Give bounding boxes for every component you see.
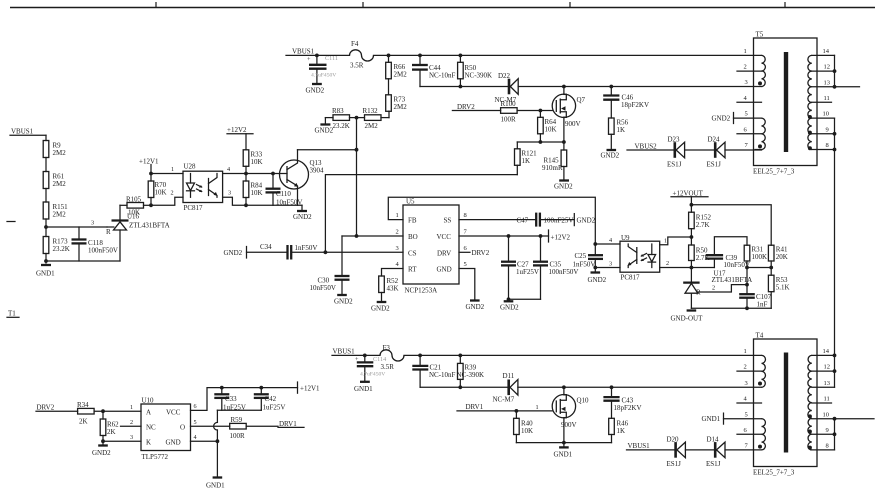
wire VBUS1 to R9 xyxy=(45,135,47,140)
pin T4-5 GND1 port xyxy=(702,411,762,424)
pin T4-6 stub xyxy=(737,427,762,434)
wire T5 pins 14-12-13 tie xyxy=(834,55,836,86)
wire D20 to D14 xyxy=(685,449,714,451)
wire pin2 NC stub xyxy=(121,419,142,426)
svg-text:GND-OUT: GND-OUT xyxy=(671,315,704,323)
resistor R66 xyxy=(386,55,408,94)
junction C35 top xyxy=(539,234,543,238)
resistor R73 xyxy=(386,95,408,112)
svg-text:10: 10 xyxy=(823,111,830,118)
svg-text:3: 3 xyxy=(228,190,231,197)
wire divider node R31-R41 xyxy=(747,267,771,269)
svg-text:GND2: GND2 xyxy=(306,87,325,95)
svg-text:2M2: 2M2 xyxy=(394,71,408,79)
junction R62 top xyxy=(101,409,105,413)
wire C27/C35 ground rail xyxy=(509,298,541,300)
svg-text:CS: CS xyxy=(408,249,417,257)
svg-text:U10: U10 xyxy=(142,397,155,405)
svg-text:U9: U9 xyxy=(621,234,630,242)
svg-text:C25: C25 xyxy=(575,252,587,260)
wire R61 to R151 xyxy=(45,189,47,203)
polarity dot T5 pin8 xyxy=(808,146,812,150)
polarity dot T4 pin7 xyxy=(758,445,762,449)
wire T4 pins 10-9-8 tie xyxy=(834,419,836,450)
svg-text:100nF25V: 100nF25V xyxy=(544,217,574,225)
svg-text:10K: 10K xyxy=(251,189,263,197)
svg-text:1K: 1K xyxy=(522,157,531,165)
net minus mark xyxy=(7,221,15,223)
capacitor C39 10nF50V xyxy=(691,237,750,269)
svg-text:8: 8 xyxy=(826,142,829,149)
svg-text:13: 13 xyxy=(824,380,831,387)
junction R152/R50/pin1 xyxy=(690,235,694,239)
junction C111 tap xyxy=(315,54,319,58)
wire source rail xyxy=(517,141,564,143)
svg-text:GND1: GND1 xyxy=(354,385,373,393)
svg-text:2: 2 xyxy=(171,190,174,197)
svg-text:2: 2 xyxy=(130,419,133,426)
svg-text:13: 13 xyxy=(824,79,831,86)
pin T5-12 xyxy=(812,64,835,71)
node +12VOUT xyxy=(671,189,708,212)
polarity dot T4 pin8 xyxy=(808,446,812,450)
svg-text:2M2: 2M2 xyxy=(365,122,379,130)
resistor R50 2.7K xyxy=(689,237,710,283)
pin T4-2 stub xyxy=(737,364,762,371)
wire VBUS1 rail left of fuse xyxy=(332,354,380,356)
svg-text:100nF50V: 100nF50V xyxy=(549,268,579,276)
svg-text:EEL25_7+7_3: EEL25_7+7_3 xyxy=(753,469,795,477)
diode D24 ES1J xyxy=(707,136,726,169)
resistor R152 xyxy=(689,212,712,237)
wire BO down to C30 xyxy=(341,236,343,276)
resistor R41 xyxy=(768,245,788,275)
svg-text:5: 5 xyxy=(194,419,197,426)
fuse F4 3.5R xyxy=(350,40,374,70)
svg-text:1nF: 1nF xyxy=(757,301,768,309)
svg-text:11: 11 xyxy=(824,396,830,403)
node T1 xyxy=(7,310,19,318)
node VBUS1 (left sense divider) xyxy=(10,128,46,136)
wire D22 to Q7 drain and T5 pin3 xyxy=(518,86,761,88)
svg-text:Q7: Q7 xyxy=(577,96,586,104)
svg-text:2: 2 xyxy=(744,64,747,71)
capacitor C47 100nF25V (series) xyxy=(517,213,575,227)
transformer T5 core xyxy=(784,52,788,152)
svg-text:C110: C110 xyxy=(276,190,291,198)
wire ground rail under Q13 xyxy=(246,204,302,206)
svg-text:10K: 10K xyxy=(521,427,533,435)
diode D22 NC-M7 xyxy=(495,72,519,104)
junction Q10 source xyxy=(562,441,566,445)
pin T4-4 stub xyxy=(737,396,762,403)
svg-text:DRV: DRV xyxy=(437,249,451,257)
wire U9 pin3 xyxy=(595,261,620,268)
resistor R53 xyxy=(768,275,789,308)
svg-text:NC-390K: NC-390K xyxy=(457,371,485,379)
wire cap return with hop over pin5 xyxy=(214,410,218,441)
svg-text:2: 2 xyxy=(744,364,747,371)
svg-text:18pF2KV: 18pF2KV xyxy=(614,404,642,412)
svg-text:DRV2: DRV2 xyxy=(472,249,490,257)
svg-text:2.7K: 2.7K xyxy=(696,221,710,229)
junction T4 pin12 xyxy=(833,369,837,373)
svg-text:+12V2: +12V2 xyxy=(227,126,247,134)
svg-text:2M2: 2M2 xyxy=(53,149,67,157)
junction C27 top xyxy=(507,234,511,238)
node DRV2 (driver input) xyxy=(36,404,78,412)
ground GND2 (C25) xyxy=(588,273,607,285)
polarity dot T4 pin3 xyxy=(758,382,762,386)
pin T4-8 xyxy=(812,443,835,450)
svg-text:SS: SS xyxy=(444,217,452,225)
svg-text:10nF50V: 10nF50V xyxy=(276,199,302,207)
svg-text:11: 11 xyxy=(824,95,830,102)
resistor R52 43K xyxy=(379,276,399,302)
svg-text:1: 1 xyxy=(664,238,667,245)
ground GND2 (Q13 emitter) xyxy=(293,205,312,221)
junction R62 bottom / pin3 xyxy=(101,439,105,443)
svg-text:3: 3 xyxy=(91,220,94,227)
pin T5-2 stub xyxy=(737,64,762,71)
svg-text:GND2: GND2 xyxy=(315,127,334,135)
svg-text:DRV1: DRV1 xyxy=(466,403,484,411)
svg-text:4.7uF450V: 4.7uF450V xyxy=(311,73,336,79)
wire clamp rail C21 to D11 xyxy=(420,386,507,388)
svg-text:1K: 1K xyxy=(617,126,626,134)
resistor R33 xyxy=(243,150,262,174)
svg-text:D22: D22 xyxy=(498,72,511,80)
svg-text:910mR: 910mR xyxy=(542,164,563,172)
svg-text:6: 6 xyxy=(194,403,197,410)
junction R40 top on gate line xyxy=(515,409,519,413)
pin T4-13 xyxy=(812,380,835,387)
junction R70 bottom / R105 xyxy=(149,203,153,207)
svg-text:4.7uF450V: 4.7uF450V xyxy=(360,372,385,378)
svg-text:GND: GND xyxy=(437,266,452,274)
ground GND2 port (C34 left) xyxy=(224,247,247,259)
svg-text:PC817: PC817 xyxy=(621,273,641,281)
node DRV1 gate line xyxy=(457,403,552,411)
svg-text:3: 3 xyxy=(745,380,748,387)
svg-text:100nF50V: 100nF50V xyxy=(88,247,118,255)
svg-text:O: O xyxy=(180,423,185,431)
svg-text:3: 3 xyxy=(745,79,748,86)
junction C44 top xyxy=(418,54,422,58)
junction R84 bottom xyxy=(244,203,248,207)
resistor R64 xyxy=(538,111,557,143)
ground GND1 (U10) xyxy=(206,441,225,489)
wire R121 to CS sense xyxy=(325,175,517,253)
transistor Q7 900V MOSFET xyxy=(552,87,585,143)
svg-text:2M2: 2M2 xyxy=(394,103,408,111)
svg-text:D20: D20 xyxy=(667,436,680,444)
svg-text:R34: R34 xyxy=(77,401,89,409)
svg-text:D14: D14 xyxy=(707,436,720,444)
power +12V1 port (rail) xyxy=(298,382,321,393)
capacitor C110 xyxy=(266,174,303,207)
svg-text:ES1J: ES1J xyxy=(707,161,722,169)
svg-text:R132: R132 xyxy=(363,107,379,115)
capacitor C114 4.7uF450V xyxy=(355,355,386,381)
resistor R56 xyxy=(609,118,629,150)
junction T5 pin12 xyxy=(833,69,837,73)
junction C27 bottom xyxy=(507,297,511,301)
pin T5-6 stub xyxy=(737,126,762,133)
svg-text:NCP1253A: NCP1253A xyxy=(405,287,438,295)
svg-text:GND2: GND2 xyxy=(712,115,731,123)
ground GND1 (C114) xyxy=(354,382,373,393)
svg-text:GND2: GND2 xyxy=(554,183,573,191)
svg-text:100R: 100R xyxy=(230,432,246,440)
wire +12V1 node to U28 pin1 xyxy=(151,166,183,174)
resistor R83 xyxy=(325,107,356,130)
svg-text:+12V2: +12V2 xyxy=(551,234,571,242)
svg-text:GND2: GND2 xyxy=(92,449,111,457)
diode D11 NC-M7 xyxy=(493,372,518,404)
svg-text:R83: R83 xyxy=(332,107,344,115)
junction Q7 drain xyxy=(562,85,566,89)
wire U28 pin3 to ground rail (jog) xyxy=(223,190,246,206)
svg-text:R: R xyxy=(106,228,111,236)
svg-text:+12V1: +12V1 xyxy=(300,384,320,392)
wire VBUS1 rail to T5 pin1 xyxy=(374,54,762,56)
junction ref node xyxy=(745,283,749,287)
wire RT pin4 to R52 xyxy=(382,269,404,277)
wire R132 node down to BO xyxy=(356,118,358,236)
svg-text:9: 9 xyxy=(826,427,829,434)
svg-text:VBUS2: VBUS2 xyxy=(635,143,658,151)
resistor R145 910mR xyxy=(542,142,567,181)
junction T5 pin8 xyxy=(833,148,837,152)
capacitor C44 NC-10nF xyxy=(412,55,456,86)
winding T4 aux 5-7 xyxy=(762,419,766,450)
wire U28 pin4 to base node xyxy=(223,166,246,174)
svg-text:10K: 10K xyxy=(128,209,140,217)
junction pin4 / cap return xyxy=(216,439,220,443)
capacitor C30 10nF50V xyxy=(310,276,350,295)
svg-text:1uF25V: 1uF25V xyxy=(263,404,286,412)
svg-text:DRV2: DRV2 xyxy=(457,103,475,111)
wire GND pin5 xyxy=(459,269,475,301)
junction cathode node xyxy=(690,266,694,270)
resistor R34 2K xyxy=(77,401,141,426)
capacitor C27 1uF25V xyxy=(501,236,539,299)
pin number labels U5 xyxy=(396,212,468,268)
power +12V2 port (VCC) xyxy=(549,230,571,242)
junction divider tap xyxy=(44,225,48,229)
ground GND1 xyxy=(36,265,55,278)
svg-text:VBUS1: VBUS1 xyxy=(11,128,34,136)
svg-text:GND2: GND2 xyxy=(577,217,596,225)
junction Q7 source xyxy=(562,140,566,144)
resistor R70 xyxy=(148,174,166,206)
junction C25 / U9 pin4 xyxy=(593,242,597,246)
svg-text:F4: F4 xyxy=(351,40,359,48)
svg-text:BO: BO xyxy=(408,233,418,241)
svg-text:4: 4 xyxy=(609,237,612,244)
capacitor C25 1nF50V xyxy=(573,244,604,273)
pin T4-12 xyxy=(812,364,835,371)
svg-text:GND2: GND2 xyxy=(588,276,607,284)
svg-text:DRV1: DRV1 xyxy=(279,420,297,428)
wire to U28 pin2 (jog) xyxy=(151,190,183,206)
resistor R39 NC-390K xyxy=(457,355,485,387)
svg-text:900V: 900V xyxy=(561,421,577,429)
junction C25 / U9 pin3 xyxy=(593,266,597,270)
shunt regulator U16 ZTL431BFTA xyxy=(106,205,170,261)
junction R33/R84/pin4 xyxy=(244,172,248,176)
svg-text:8: 8 xyxy=(464,212,467,219)
wire VBUS1 rail left of fuse xyxy=(286,54,350,56)
ground GND2 (C111) xyxy=(306,84,325,95)
resistor R151 xyxy=(43,202,68,219)
wire D24 to T5 pin7 xyxy=(725,149,762,151)
wire pin3 K xyxy=(103,434,141,441)
svg-text:2M2: 2M2 xyxy=(53,180,67,188)
optocoupler U28 PC817 xyxy=(183,163,223,213)
pin T4-10 output xyxy=(812,411,874,418)
wire Q13 collector to R132 node xyxy=(298,149,357,151)
resistor R121 xyxy=(515,142,538,175)
resistor R173 xyxy=(43,237,70,254)
svg-text:23.2K: 23.2K xyxy=(53,245,70,253)
resistor R61 xyxy=(43,172,66,189)
wire GND-OUT rail xyxy=(691,307,771,309)
svg-text:GND2: GND2 xyxy=(224,249,243,257)
svg-text:4: 4 xyxy=(194,434,197,441)
wire BO pin2 xyxy=(342,235,403,237)
junction R83/R132 xyxy=(355,116,359,120)
junction C114 tap xyxy=(363,354,367,358)
svg-text:RT: RT xyxy=(408,266,417,274)
svg-text:ES1J: ES1J xyxy=(706,460,721,468)
power +12V2 port xyxy=(227,126,253,150)
ground GND2 port (C47) xyxy=(574,214,595,226)
pin T5-11 stub xyxy=(812,95,832,102)
wire R173 to GND1 xyxy=(45,254,47,264)
junction +12VOUT rail xyxy=(690,203,694,207)
wire FB pin1 rail over IC xyxy=(388,197,595,244)
ground GND2 (C30) xyxy=(334,295,353,306)
svg-text:VCC: VCC xyxy=(166,409,181,417)
svg-text:GND2: GND2 xyxy=(601,152,620,160)
svg-text:ZTL431BFTA: ZTL431BFTA xyxy=(129,222,170,230)
wire CS line to pin3 xyxy=(291,251,403,253)
svg-text:1: 1 xyxy=(744,48,747,55)
svg-text:5: 5 xyxy=(745,411,748,418)
power +12V1 port xyxy=(139,158,159,174)
resistor R9 xyxy=(43,141,66,158)
shunt regulator U17 ZTL431BFTA xyxy=(683,270,752,309)
pin T5-10 xyxy=(812,111,835,118)
junction C21 top xyxy=(418,354,422,358)
svg-text:100R: 100R xyxy=(501,116,517,124)
wire D23 to D24 xyxy=(685,149,714,151)
svg-text:1: 1 xyxy=(130,404,133,411)
junction C33 top xyxy=(220,386,224,390)
svg-text:+12V1: +12V1 xyxy=(139,158,159,166)
resistor R132 xyxy=(357,107,390,130)
svg-text:10K: 10K xyxy=(251,158,263,166)
sheet border line xyxy=(10,2,875,8)
node DRV1 (driver output) xyxy=(278,420,304,428)
svg-text:1K: 1K xyxy=(617,427,626,435)
pin T4-11 stub xyxy=(812,396,832,403)
capacitor C21 NC-10nF xyxy=(412,355,455,387)
transistor Q13 3904 xyxy=(280,150,325,206)
svg-text:1: 1 xyxy=(744,348,747,355)
svg-text:NC-10nF: NC-10nF xyxy=(429,72,456,80)
svg-text:NC-390K: NC-390K xyxy=(465,72,493,80)
svg-text:C33: C33 xyxy=(225,395,237,403)
ground GND2 (R145) xyxy=(554,181,573,191)
wire R132 to R73 bottom xyxy=(388,111,390,117)
pin T5-4 stub xyxy=(737,95,762,102)
svg-text:D11: D11 xyxy=(503,372,515,380)
junction R39 top xyxy=(458,354,462,358)
wire +12VOUT rail to R41 xyxy=(691,205,771,245)
resistor R84 xyxy=(243,174,262,206)
junction C42 top xyxy=(259,386,263,390)
pin T5-8 xyxy=(812,142,835,149)
svg-text:1: 1 xyxy=(536,404,539,411)
junction R173 bottom xyxy=(44,259,48,263)
wire R9 to R61 xyxy=(45,158,47,172)
svg-text:3904: 3904 xyxy=(310,167,325,175)
ground GND2 (R56) xyxy=(601,150,620,160)
svg-text:C114: C114 xyxy=(373,356,386,363)
junction R50 bottom xyxy=(459,85,463,89)
polarity dot T4 pin10 xyxy=(808,414,812,418)
wire CS line left segment xyxy=(247,251,288,253)
svg-text:DRV2: DRV2 xyxy=(37,404,55,412)
wire tap to TL431 ref xyxy=(46,220,107,228)
junction T4 pin10 xyxy=(833,417,837,421)
svg-text:2: 2 xyxy=(666,260,669,267)
junction C107 bottom xyxy=(745,306,749,310)
transformer T4 EEL25_7+7_3 xyxy=(753,332,817,477)
svg-text:5: 5 xyxy=(745,111,748,118)
ground GND-OUT port xyxy=(671,311,704,323)
junction C46 tap xyxy=(609,85,613,89)
svg-text:2K: 2K xyxy=(79,418,88,426)
svg-text:GND: GND xyxy=(166,438,181,446)
polarity dot T5 pin3 xyxy=(758,81,762,85)
svg-text:18pF2KV: 18pF2KV xyxy=(621,101,649,109)
ground GND2 (R83 left) xyxy=(315,118,334,135)
wire U17 ref to divider xyxy=(698,285,747,293)
wire base node to Q13 xyxy=(246,173,287,175)
svg-text:5.1K: 5.1K xyxy=(776,284,790,292)
svg-text:Q10: Q10 xyxy=(577,396,590,404)
node VBUS2 xyxy=(627,143,674,151)
resistor R40 xyxy=(514,411,534,443)
svg-text:ZTL431BFTA: ZTL431BFTA xyxy=(712,276,753,284)
svg-text:3: 3 xyxy=(396,245,399,252)
svg-text:3: 3 xyxy=(609,261,612,268)
pin T5-14 xyxy=(812,48,835,55)
svg-text:GND1: GND1 xyxy=(36,270,55,278)
svg-text:14: 14 xyxy=(823,348,830,355)
svg-text:8: 8 xyxy=(826,443,829,450)
polarity dot T4 pin9 xyxy=(808,430,812,434)
junction R64 bottom xyxy=(539,140,543,144)
capacitor C111 4.7uF450V xyxy=(307,55,338,84)
svg-text:10K: 10K xyxy=(155,189,167,197)
svg-text:U28: U28 xyxy=(184,163,197,171)
svg-text:2K: 2K xyxy=(107,428,116,436)
